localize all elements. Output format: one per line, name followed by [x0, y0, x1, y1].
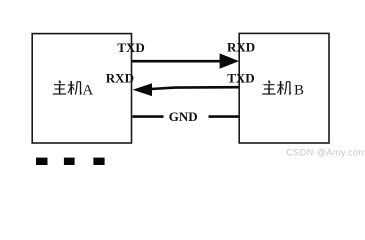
arrowhead into host B — [220, 53, 239, 68]
svg-text:TXD: TXD — [117, 40, 144, 55]
label 主机A — [53, 81, 82, 95]
机 wood-radical left-falling stroke — [68, 86, 71, 93]
svg-text:RXD: RXD — [106, 71, 134, 86]
机 ji top horizontal — [286, 81, 290, 83]
机 ji top horizontal — [77, 81, 81, 83]
主 middle horizontal — [55, 88, 65, 90]
主 vertical — [59, 85, 61, 94]
机 wood-radical right dot — [72, 87, 74, 90]
机 wood-radical horizontal — [277, 84, 284, 86]
主 middle horizontal — [264, 88, 274, 90]
svg-text:A: A — [82, 83, 93, 99]
机 wood-radical vertical — [280, 81, 282, 95]
机 wood-radical vertical — [70, 81, 72, 95]
机 wood-radical horizontal — [68, 84, 75, 86]
svg-text:CSDN @Amy.com: CSDN @Amy.com — [286, 148, 365, 158]
GND wire left segment — [133, 115, 164, 118]
主 bottom horizontal — [53, 93, 66, 95]
svg-text:GND: GND — [169, 109, 198, 124]
cropped caption character 3 — [93, 158, 104, 165]
host box A — [32, 34, 131, 143]
主 bottom horizontal — [262, 93, 275, 95]
svg-text:RXD: RXD — [227, 40, 255, 55]
主 top horizontal — [54, 84, 65, 86]
cropped caption character 1 — [36, 158, 48, 165]
机 ji right vertical with hook — [81, 82, 82, 94]
svg-text:B: B — [294, 83, 304, 99]
GND wire right segment — [209, 115, 239, 118]
svg-text:TXD: TXD — [227, 71, 254, 86]
机 wood-radical left-falling stroke — [277, 86, 280, 93]
机 ji left stroke — [75, 82, 77, 95]
主 vertical — [268, 85, 270, 94]
wire TXD A to RXD B shaft — [132, 60, 222, 63]
label 主机B — [262, 81, 291, 95]
arrowhead into host A — [133, 83, 152, 96]
主 dot — [59, 81, 60, 84]
机 ji left stroke — [285, 82, 287, 95]
wire TXD B to RXD A shaft — [151, 87, 239, 89]
cropped caption character 2 — [64, 158, 75, 165]
主 dot — [269, 81, 270, 84]
机 ji right vertical with hook — [290, 82, 291, 94]
host box B — [239, 33, 329, 143]
主 top horizontal — [263, 84, 274, 86]
机 wood-radical right dot — [282, 87, 284, 90]
